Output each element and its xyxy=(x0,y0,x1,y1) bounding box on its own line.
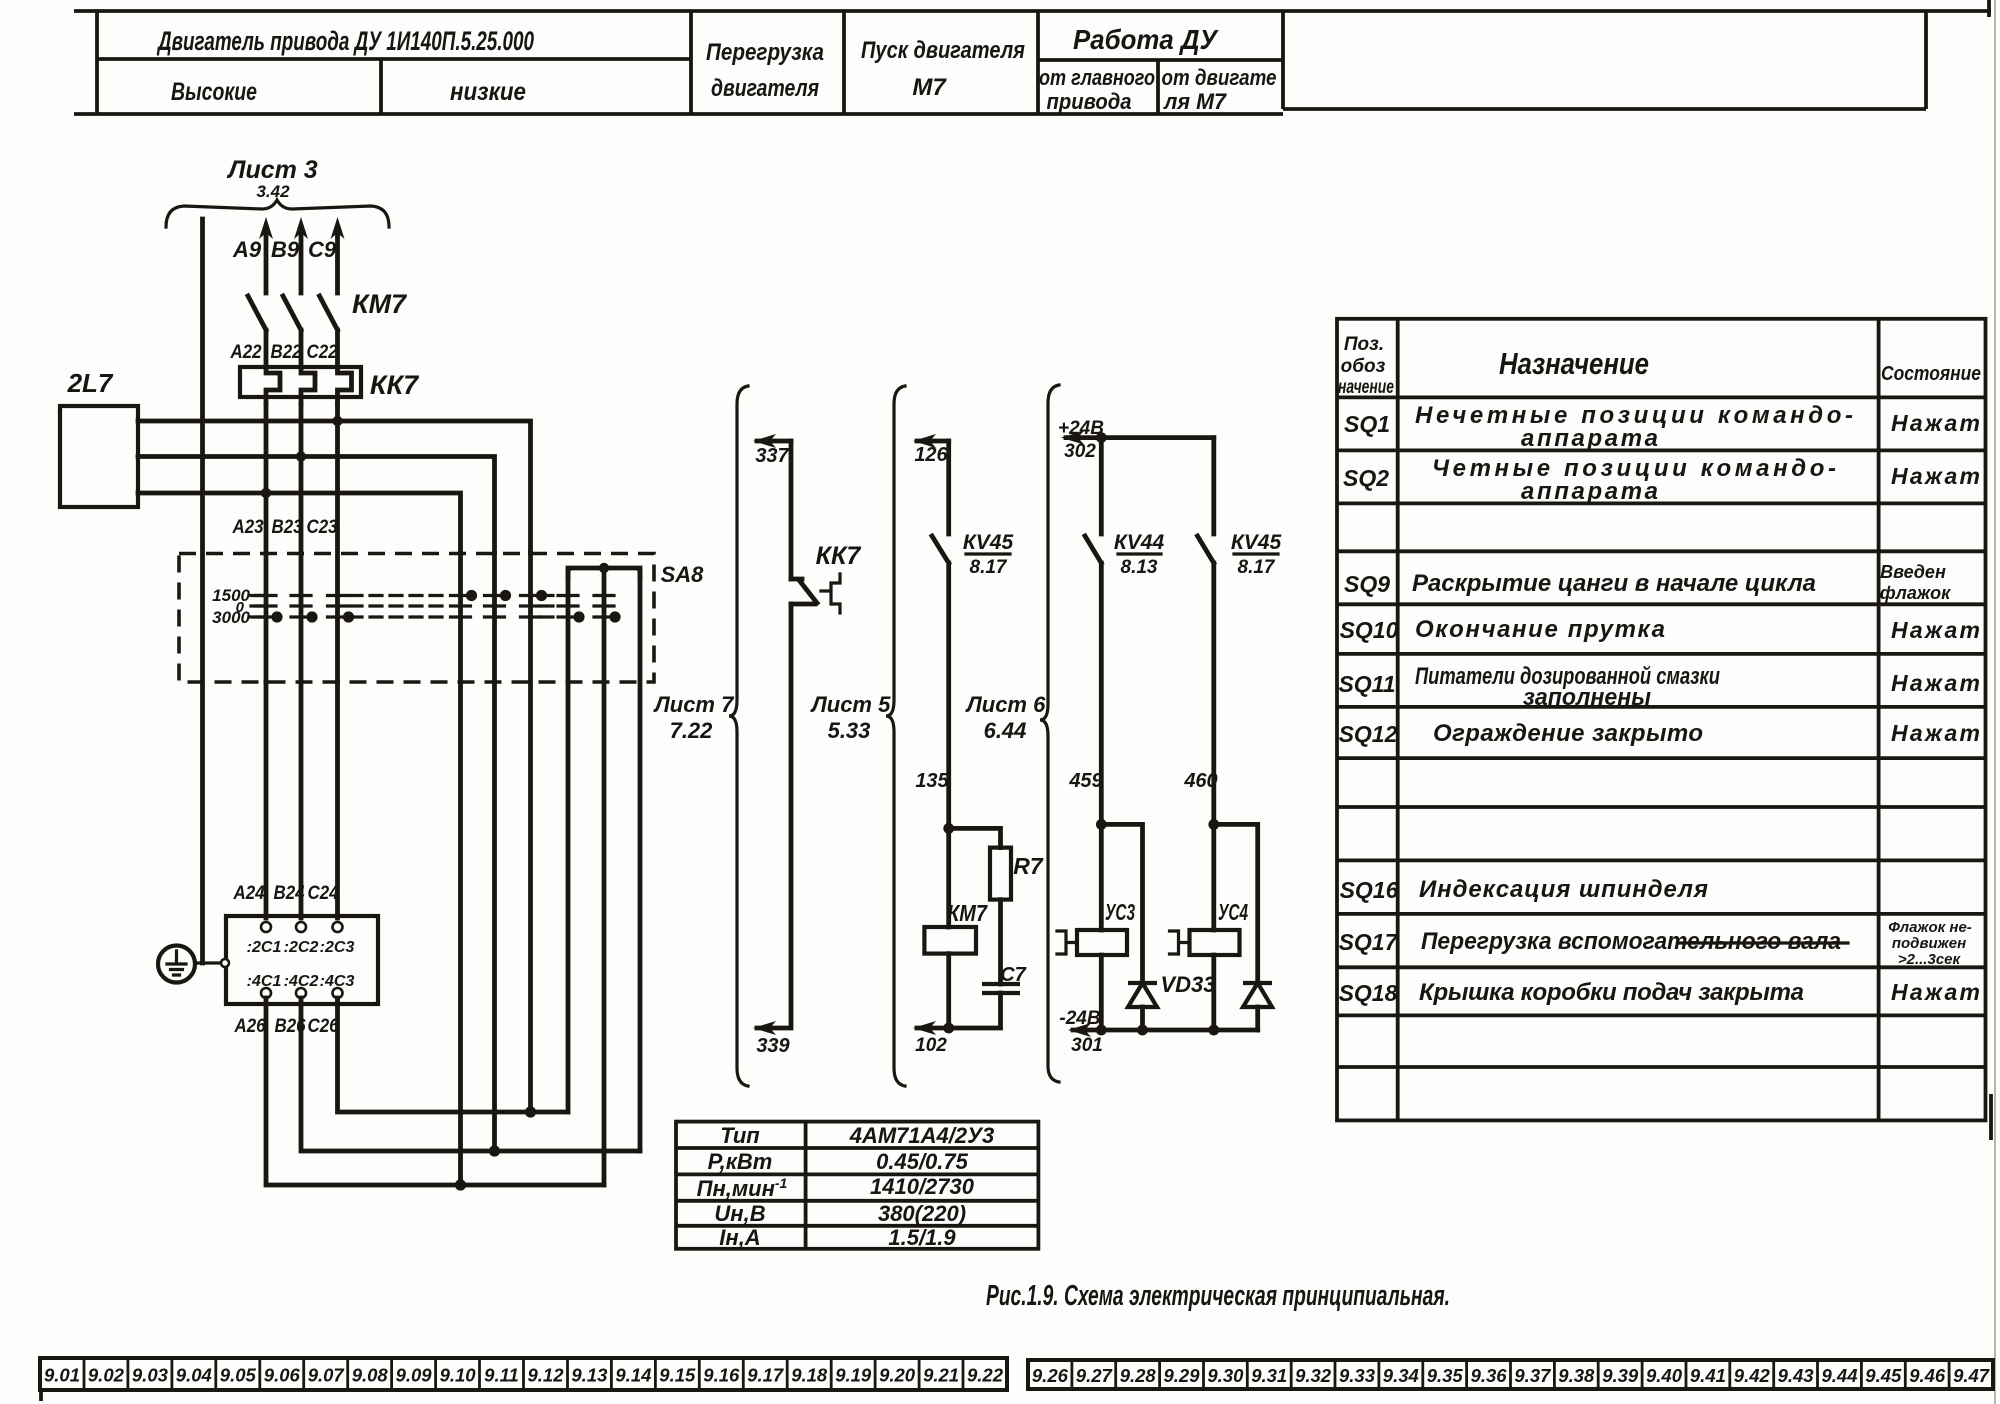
svg-text:9.21: 9.21 xyxy=(923,1365,959,1386)
svg-text:9.01: 9.01 xyxy=(44,1365,80,1386)
svg-text:Нажат: Нажат xyxy=(1891,617,1980,643)
svg-text:135: 135 xyxy=(915,770,949,792)
thermal relay KK7 box xyxy=(240,367,361,397)
svg-text:Ограждение закрыто: Ограждение закрыто xyxy=(1433,720,1703,747)
svg-text:Назначение: Назначение xyxy=(1499,346,1649,381)
svg-text:Нажат: Нажат xyxy=(1891,720,1980,746)
svg-text:301: 301 xyxy=(1071,1035,1103,1056)
svg-text:8.17: 8.17 xyxy=(1238,557,1276,578)
svg-text:SQ18: SQ18 xyxy=(1339,980,1398,1006)
wire 2L7 col 494.5 down xyxy=(492,553,497,1151)
svg-text:А22: А22 xyxy=(230,342,262,363)
svg-text:С22: С22 xyxy=(307,342,338,363)
svg-text:9.07: 9.07 xyxy=(308,1365,346,1386)
svg-text:9.06: 9.06 xyxy=(264,1365,301,1386)
svg-text:Лист 5: Лист 5 xyxy=(810,692,891,717)
svg-text:В22: В22 xyxy=(271,342,302,363)
wire B continues xyxy=(299,404,304,682)
SA8 right group top bridge xyxy=(568,568,640,578)
wire phase B down xyxy=(299,682,304,918)
svg-text:заполнены: заполнены xyxy=(1523,684,1651,711)
faint page right edge xyxy=(1994,0,1996,1404)
SA8 wafer contact col 6 xyxy=(521,596,541,618)
wire SA8 right col 568 down xyxy=(566,568,571,1112)
wire A9 with up arrow xyxy=(264,228,269,293)
wire phase A down to motor terminal xyxy=(264,682,269,918)
wire PE vertical (left long wire to ground) xyxy=(200,219,205,963)
header table grid xyxy=(74,11,1926,114)
svg-text:9.45: 9.45 xyxy=(1865,1365,1902,1386)
svg-text:3.42: 3.42 xyxy=(256,182,290,201)
svg-text:9.26: 9.26 xyxy=(1032,1365,1069,1386)
svg-text:9.38: 9.38 xyxy=(1558,1365,1595,1386)
svg-text:7.22: 7.22 xyxy=(670,718,714,743)
svg-text:9.15: 9.15 xyxy=(659,1365,696,1386)
wire 2L7 col 530.5 down xyxy=(528,553,533,1112)
svg-text:8.13: 8.13 xyxy=(1121,557,1158,578)
svg-text:Высокие: Высокие xyxy=(171,78,257,106)
box 2L7 xyxy=(60,406,138,507)
svg-text:SQ12: SQ12 xyxy=(1339,721,1398,747)
svg-text:9.40: 9.40 xyxy=(1646,1365,1683,1386)
wire from 2L7 pin3 (junction at A phase) xyxy=(138,493,461,553)
svg-text:Uн,В: Uн,В xyxy=(714,1201,765,1226)
svg-text:от главного: от главного xyxy=(1039,65,1155,90)
SA8 wafer contact on phase C xyxy=(328,596,348,618)
svg-text:КV44: КV44 xyxy=(1114,531,1165,554)
svg-text:1410/2730: 1410/2730 xyxy=(870,1174,975,1199)
resistor R7 xyxy=(990,848,1011,900)
svg-text:Лист 3: Лист 3 xyxy=(226,156,318,184)
svg-text:9.37: 9.37 xyxy=(1514,1365,1552,1386)
svg-text:9.36: 9.36 xyxy=(1471,1365,1508,1386)
svg-text:Окончание прутка: Окончание прутка xyxy=(1415,616,1665,643)
junction and diode branch (right) xyxy=(1208,819,1219,830)
svg-text:9.09: 9.09 xyxy=(396,1365,433,1386)
KK7 heater element phase C xyxy=(338,367,352,404)
svg-text:SQ10: SQ10 xyxy=(1340,617,1399,643)
svg-text:Перегрузка: Перегрузка xyxy=(706,39,824,66)
SA8 wafer contact col 7 xyxy=(558,596,578,618)
coil KM7 xyxy=(924,927,976,954)
svg-text:С26: С26 xyxy=(308,1016,339,1037)
brace to sheet 5 xyxy=(886,386,905,1086)
svg-text:SQ9: SQ9 xyxy=(1344,571,1390,597)
svg-text:КV45: КV45 xyxy=(1231,531,1282,554)
svg-text:>2...3сек: >2...3сек xyxy=(1898,951,1962,968)
svg-text:3000: 3000 xyxy=(212,608,250,627)
svg-text:8.17: 8.17 xyxy=(970,557,1008,578)
clutch YC4 coil xyxy=(1190,930,1240,955)
SA8 position dashed link rows xyxy=(251,594,559,597)
wire down to KV45 contact xyxy=(946,441,951,534)
svg-text:флажок: флажок xyxy=(1880,583,1951,603)
svg-text:1500: 1500 xyxy=(212,586,250,605)
svg-text:Нажат: Нажат xyxy=(1891,410,1980,436)
svg-text:460: 460 xyxy=(1183,770,1217,792)
small mark bottom-left of strip xyxy=(39,1391,43,1401)
svg-text:Введен: Введен xyxy=(1880,562,1946,582)
junction to R7 branch xyxy=(943,823,954,834)
svg-text:9.30: 9.30 xyxy=(1207,1365,1244,1386)
contact KV45 (NO) xyxy=(932,536,949,927)
contactor KM7 contact pole B xyxy=(283,296,301,367)
svg-text:302: 302 xyxy=(1064,441,1096,462)
ground symbol xyxy=(158,946,195,983)
svg-text:Р,кВт: Р,кВт xyxy=(708,1149,773,1174)
diode VD33b xyxy=(1243,983,1272,1007)
svg-text:2L7: 2L7 xyxy=(67,368,114,398)
svg-text:380(220): 380(220) xyxy=(878,1201,966,1226)
state table grid xyxy=(1337,319,1986,1121)
page right border segment (lower right) xyxy=(1989,1094,1993,1140)
svg-text:Пуск двигателя: Пуск двигателя xyxy=(861,37,1025,64)
svg-text:9.43: 9.43 xyxy=(1778,1365,1815,1386)
svg-text:Поз.: Поз. xyxy=(1344,334,1384,355)
svg-text:ля М7: ля М7 xyxy=(1163,89,1228,114)
svg-text:9.17: 9.17 xyxy=(747,1365,785,1386)
svg-text:Нажат: Нажат xyxy=(1891,670,1980,696)
svg-text:аппарата: аппарата xyxy=(1521,478,1658,505)
svg-text:Работа ДУ: Работа ДУ xyxy=(1073,24,1219,55)
svg-text:SQ11: SQ11 xyxy=(1338,671,1395,697)
svg-text:9.46: 9.46 xyxy=(1909,1365,1946,1386)
wire KV45 branch down (right) xyxy=(1211,438,1216,534)
svg-text:М7: М7 xyxy=(912,74,947,101)
svg-text:9.33: 9.33 xyxy=(1339,1365,1376,1386)
svg-text:9.12: 9.12 xyxy=(527,1365,564,1386)
svg-text:9.44: 9.44 xyxy=(1821,1365,1857,1386)
capacitor C7 xyxy=(982,984,1020,993)
svg-text:С24: С24 xyxy=(308,883,339,904)
brace to sheet 7 xyxy=(729,386,748,1086)
svg-text:Пн,мин-1: Пн,мин-1 xyxy=(697,1175,788,1201)
svg-text:6.44: 6.44 xyxy=(984,718,1027,743)
svg-text:КМ7: КМ7 xyxy=(947,900,988,926)
SA8 wafer contact col 4 xyxy=(451,596,471,618)
svg-text:9.19: 9.19 xyxy=(835,1365,872,1386)
svg-text::2С2: :2С2 xyxy=(284,939,319,956)
wire A continues KK7 to SA8 xyxy=(264,404,269,682)
wire-number strip right 9.26-9.47 frame xyxy=(1028,1360,1993,1389)
svg-text:КК7: КК7 xyxy=(370,370,420,400)
svg-text:126: 126 xyxy=(914,444,948,466)
wire C9 with up arrow xyxy=(335,228,340,293)
terminal 2C3 xyxy=(333,922,343,932)
svg-text:9.20: 9.20 xyxy=(879,1365,916,1386)
svg-text:9.02: 9.02 xyxy=(88,1365,125,1386)
svg-text:9.04: 9.04 xyxy=(176,1365,212,1386)
svg-text:9.41: 9.41 xyxy=(1690,1365,1726,1386)
svg-text::2С1: :2С1 xyxy=(247,939,282,956)
thermal contact KK7 (NC with release) xyxy=(791,579,817,604)
SA8 wafer contact col 8 xyxy=(594,596,614,618)
svg-text:подвижен: подвижен xyxy=(1892,935,1966,952)
wire SA8 right col 604 down xyxy=(602,568,607,1185)
svg-text:9.39: 9.39 xyxy=(1602,1365,1639,1386)
svg-text:9.42: 9.42 xyxy=(1734,1365,1771,1386)
svg-text:низкие: низкие xyxy=(450,78,526,106)
svg-text:Лист 6: Лист 6 xyxy=(965,692,1046,717)
svg-text:обоз: обоз xyxy=(1341,356,1386,377)
svg-text:9.31: 9.31 xyxy=(1251,1365,1287,1386)
svg-text:С23: С23 xyxy=(307,517,338,538)
wire A26 to SA8 col 604 xyxy=(266,998,604,1185)
svg-text:В23: В23 xyxy=(272,517,303,538)
svg-text:SQ17: SQ17 xyxy=(1339,929,1399,955)
svg-text:А9: А9 xyxy=(232,237,262,262)
svg-text:9.32: 9.32 xyxy=(1295,1365,1332,1386)
svg-text:С9: С9 xyxy=(308,237,337,262)
SA8 wafer contact on phase B xyxy=(291,596,311,618)
svg-text:SQ1: SQ1 xyxy=(1344,411,1390,437)
svg-text:9.22: 9.22 xyxy=(967,1365,1004,1386)
wire R7 to C7 xyxy=(998,900,1003,984)
svg-text:КМ7: КМ7 xyxy=(352,289,408,319)
contactor KM7 contact pole A xyxy=(248,296,266,367)
svg-text:9.14: 9.14 xyxy=(615,1365,651,1386)
brace to sheet 3 (over wires, cusp up) xyxy=(166,200,389,227)
wire B26 to SA8 col 640 xyxy=(301,998,640,1151)
contactor KM7 contact pole C xyxy=(320,296,338,367)
svg-text:-24В: -24В xyxy=(1059,1008,1100,1029)
svg-text:КV45: КV45 xyxy=(963,531,1014,554)
svg-text:SA8: SA8 xyxy=(661,562,705,587)
clutch YC3 coil xyxy=(1077,930,1127,955)
brace to sheet 6 xyxy=(1040,385,1059,1082)
svg-text:Нажат: Нажат xyxy=(1891,979,1980,1005)
svg-text:9.13: 9.13 xyxy=(571,1365,608,1386)
wire B9 with up arrow xyxy=(299,228,304,293)
page top border line xyxy=(74,9,1991,13)
page right border tick (top) xyxy=(1987,0,1991,17)
svg-text:9.27: 9.27 xyxy=(1076,1365,1114,1386)
svg-text:начение: начение xyxy=(1338,377,1394,398)
svg-text:SQ2: SQ2 xyxy=(1343,465,1389,491)
SA8 wafer contact col 5 xyxy=(485,596,505,618)
wire 102 with left arrow xyxy=(917,1026,949,1031)
svg-text:Состояние: Состояние xyxy=(1881,363,1981,385)
svg-text:9.47: 9.47 xyxy=(1953,1365,1991,1386)
svg-text:Крышка коробки подач закрыта: Крышка коробки подач закрыта xyxy=(1419,979,1804,1006)
svg-text:9.08: 9.08 xyxy=(352,1365,389,1386)
svg-text:5.33: 5.33 xyxy=(828,718,871,743)
svg-text:аппарата: аппарата xyxy=(1521,425,1658,452)
svg-text:УС3: УС3 xyxy=(1105,899,1135,925)
motor terminal box xyxy=(226,916,378,1004)
wire 337 vertical xyxy=(789,441,794,579)
svg-text:R7: R7 xyxy=(1013,853,1044,879)
wire below coil xyxy=(946,954,951,1028)
svg-text:Нажат: Нажат xyxy=(1891,463,1980,489)
diode VD33a xyxy=(1128,983,1157,1007)
wire KV44 branch down xyxy=(1099,438,1104,534)
svg-text:9.35: 9.35 xyxy=(1427,1365,1464,1386)
wire from 2L7 pin2 (junction at B phase) xyxy=(138,457,495,554)
svg-text:9.03: 9.03 xyxy=(132,1365,169,1386)
wire ground to motor box terminal xyxy=(195,961,223,964)
terminal PE (open dot at box edge) xyxy=(221,959,229,967)
svg-text:9.16: 9.16 xyxy=(703,1365,740,1386)
svg-text:Тип: Тип xyxy=(720,1123,760,1148)
svg-text:Iн,А: Iн,А xyxy=(719,1225,760,1250)
contact KV44 (NO) xyxy=(1085,536,1101,930)
wire 126 with left arrow xyxy=(917,439,949,444)
wire 339 vertical and bottom arrow xyxy=(757,604,791,1028)
svg-text::2С3: :2С3 xyxy=(320,939,355,956)
svg-text:9.10: 9.10 xyxy=(440,1365,477,1386)
svg-text:Раскрытие цанги в начале цикла: Раскрытие цанги в начале цикла xyxy=(1412,570,1816,597)
svg-text:SQ16: SQ16 xyxy=(1340,877,1399,903)
svg-text:Рис.1.9. Схема электрическая: Рис.1.9. Схема электрическая принципиаль… xyxy=(986,1280,1450,1312)
terminal 2C1 xyxy=(261,922,271,932)
svg-text:С7: С7 xyxy=(1000,964,1026,986)
svg-text:Двигатель привода ДУ 1И140П.5: Двигатель привода ДУ 1И140П.5.25.000 xyxy=(157,26,534,56)
svg-text:9.34: 9.34 xyxy=(1383,1365,1419,1386)
wire C continues xyxy=(335,404,340,682)
SA8 wafer contact on phase A xyxy=(256,596,276,618)
svg-text:от двигате: от двигате xyxy=(1162,65,1277,90)
motor data table xyxy=(676,1122,1038,1250)
svg-text:VD33: VD33 xyxy=(1160,972,1215,997)
svg-text:1.5/1.9: 1.5/1.9 xyxy=(888,1225,956,1250)
switch SA8 dashed enclosure xyxy=(179,554,654,683)
svg-text:Индексация шпинделя: Индексация шпинделя xyxy=(1419,876,1708,903)
wire-number strip left 9.01-9.22 frame xyxy=(40,1358,1007,1390)
svg-text:9.18: 9.18 xyxy=(791,1365,828,1386)
wire phase C down xyxy=(335,682,340,918)
svg-text:9.05: 9.05 xyxy=(220,1365,257,1386)
svg-text:В9: В9 xyxy=(271,237,300,262)
KK7 heater element phase A xyxy=(266,367,280,404)
svg-text:КК7: КК7 xyxy=(816,542,862,570)
wire C26 to SA8 col 568 xyxy=(338,998,569,1112)
svg-text:Флажок не-: Флажок не- xyxy=(1888,919,1972,936)
wire YC3 down xyxy=(1099,955,1104,1030)
svg-text:459: 459 xyxy=(1068,770,1103,792)
svg-text:337: 337 xyxy=(755,445,789,467)
svg-text:А24: А24 xyxy=(233,883,265,904)
svg-text:привода: привода xyxy=(1047,89,1132,114)
contact KV45b (NO) xyxy=(1198,536,1214,930)
junction and diode branch (left) xyxy=(1096,819,1107,830)
svg-text:А26: А26 xyxy=(234,1016,266,1037)
svg-text:УС4: УС4 xyxy=(1218,899,1248,925)
wire from 2L7 pin1 to SA8 column (junction at C phase) xyxy=(138,421,531,553)
terminal 2C2 xyxy=(296,922,306,932)
svg-text:А23: А23 xyxy=(232,517,264,538)
svg-text:339: 339 xyxy=(756,1035,790,1057)
svg-text:9.29: 9.29 xyxy=(1163,1365,1200,1386)
svg-text:9.11: 9.11 xyxy=(484,1365,519,1386)
wire SA8 right col 640 down xyxy=(638,568,643,1151)
wire 2L7 col 460.5 down xyxy=(458,553,463,1185)
KK7 heater element phase B xyxy=(301,367,315,404)
svg-text:0.45/0.75: 0.45/0.75 xyxy=(876,1149,969,1174)
svg-text:двигателя: двигателя xyxy=(711,75,819,102)
wire C7 down to 102 rail xyxy=(949,993,1001,1028)
svg-text:4АМ71А4/2У3: 4АМ71А4/2У3 xyxy=(849,1123,995,1148)
wire YC4 down xyxy=(1211,955,1216,1030)
svg-text:Лист 7: Лист 7 xyxy=(653,692,735,717)
svg-text:В24: В24 xyxy=(274,883,305,904)
svg-text:9.28: 9.28 xyxy=(1120,1365,1157,1386)
wire 337 top with left arrow xyxy=(757,439,791,444)
svg-text:102: 102 xyxy=(915,1035,947,1056)
